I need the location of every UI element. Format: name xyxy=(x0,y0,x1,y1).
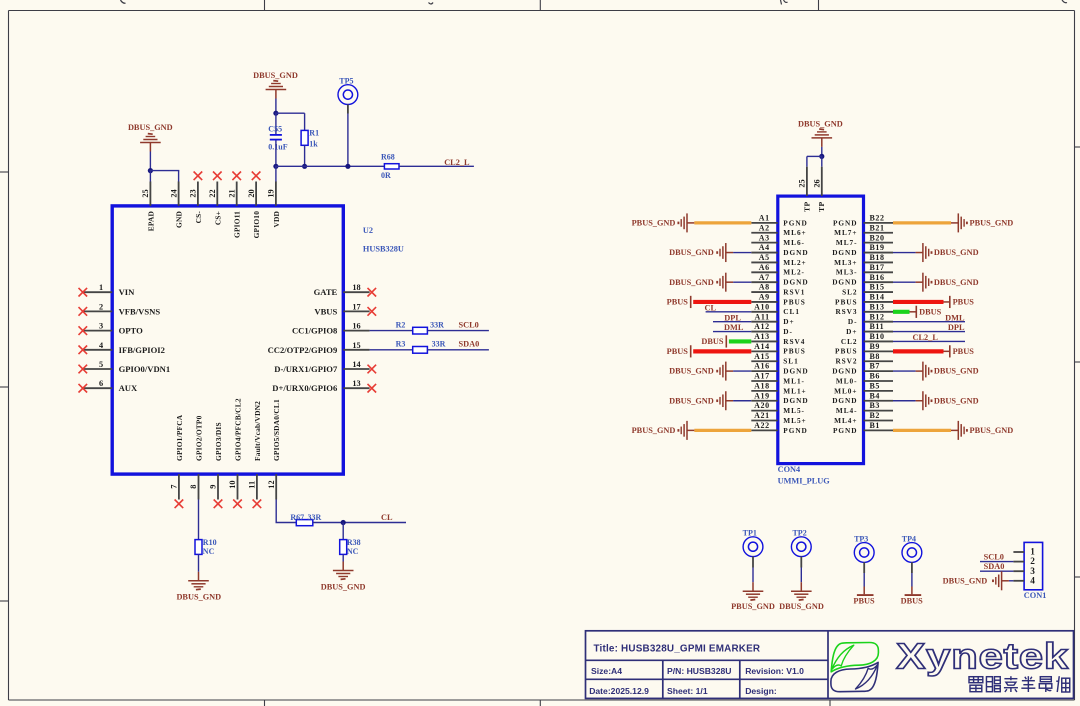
svg-text:PBUS: PBUS xyxy=(783,297,805,306)
svg-text:5: 5 xyxy=(99,360,103,369)
net label CL (A10) xyxy=(705,303,717,312)
wire DBUS_GND net B16 xyxy=(893,281,916,283)
net label DPL (B11) xyxy=(948,323,965,332)
svg-text:ML3+: ML3+ xyxy=(834,258,857,267)
wire DBUS net B13 xyxy=(893,310,916,314)
svg-text:DBUS_GND: DBUS_GND xyxy=(253,71,298,80)
net label SCL0 (CON1) xyxy=(984,553,1004,562)
test point TP5 xyxy=(338,76,358,113)
junction xyxy=(302,164,307,169)
pin A13 RSV4 xyxy=(751,332,805,346)
power symbol PBUS (A9) xyxy=(667,296,691,308)
svg-text:TP4: TP4 xyxy=(902,534,916,543)
svg-text:PBUS: PBUS xyxy=(853,597,875,606)
svg-text:AUX: AUX xyxy=(119,383,138,393)
junction xyxy=(273,164,278,169)
power symbol PBUS_GND (B22) xyxy=(951,213,1013,232)
svg-text:A3: A3 xyxy=(759,233,770,242)
wire DPL net B11 xyxy=(893,331,965,333)
pin 15 CC2/OTP2/GPIO9 xyxy=(268,341,370,355)
svg-text:ML0+: ML0+ xyxy=(834,386,857,395)
svg-text:R38: R38 xyxy=(347,538,361,547)
svg-text:ML2-: ML2- xyxy=(783,268,805,277)
pin 13 D+/URX0/GPIO6 xyxy=(272,379,376,393)
svg-text:A16: A16 xyxy=(754,362,770,371)
pin 12 GPIO5/SDA0/CL1 xyxy=(267,399,281,500)
svg-text:ML7-: ML7- xyxy=(836,238,858,247)
svg-text:20: 20 xyxy=(247,189,256,197)
svg-text:4: 4 xyxy=(99,341,103,350)
pin B13 RSV3 xyxy=(835,302,893,316)
svg-text:A5: A5 xyxy=(759,253,770,262)
svg-text:DML: DML xyxy=(945,313,965,322)
pin 23 CS- xyxy=(189,172,203,224)
wire xyxy=(427,330,489,332)
pin B5 ML0+ xyxy=(834,381,893,395)
connector CON1 body xyxy=(1024,542,1047,599)
svg-text:DGND: DGND xyxy=(832,396,857,405)
svg-text:RSV4: RSV4 xyxy=(783,337,805,346)
pin 11 Fault/Vcab/VDN2 xyxy=(248,401,262,508)
pin A17 ML1- xyxy=(751,372,805,386)
svg-text:RSV3: RSV3 xyxy=(835,307,857,316)
svg-text:VBUS: VBUS xyxy=(314,306,337,316)
svg-text:DBUS_GND: DBUS_GND xyxy=(669,278,714,287)
pin A20 ML5- xyxy=(751,401,805,415)
svg-text:TP5: TP5 xyxy=(339,76,353,85)
wire xyxy=(342,554,344,561)
svg-text:PBUS: PBUS xyxy=(953,298,975,307)
svg-text:24: 24 xyxy=(169,189,178,197)
wire xyxy=(863,573,865,587)
pin A7 DGND xyxy=(751,273,808,287)
svg-text:9: 9 xyxy=(209,485,218,489)
net label CL2_L (B10) xyxy=(913,333,939,342)
power symbol DBUS_GND (below R10) xyxy=(176,572,221,602)
pin A9 PBUS xyxy=(751,293,805,307)
resistor R68 0R xyxy=(381,153,399,180)
svg-text:12: 12 xyxy=(267,480,276,488)
svg-text:DBUS_GND: DBUS_GND xyxy=(779,602,824,611)
svg-text:1k: 1k xyxy=(309,139,318,148)
svg-text:D+: D+ xyxy=(846,327,857,336)
svg-text:RSV1: RSV1 xyxy=(783,287,805,296)
svg-text:HUSB328U: HUSB328U xyxy=(363,244,404,253)
wire DPL net A11 xyxy=(713,321,751,323)
svg-text:PBUS: PBUS xyxy=(835,347,857,356)
svg-text:B11: B11 xyxy=(870,322,885,331)
svg-text:A14: A14 xyxy=(754,342,770,351)
pin A12 D- xyxy=(751,322,793,336)
wire CL net A10 xyxy=(706,311,752,313)
pin B8 RSV2 xyxy=(835,352,893,366)
pin B6 ML0- xyxy=(836,372,893,386)
svg-text:33R: 33R xyxy=(430,320,444,329)
svg-text:UMMI_PLUG: UMMI_PLUG xyxy=(778,476,831,485)
svg-text:VDD: VDD xyxy=(272,211,281,228)
svg-text:A21: A21 xyxy=(754,411,770,420)
svg-text:Revision: V1.0: Revision: V1.0 xyxy=(745,666,804,676)
svg-text:A19: A19 xyxy=(754,391,770,400)
junction xyxy=(341,520,346,525)
power symbol DBUS_GND (B7) xyxy=(916,362,979,381)
pin 5 GPIO0/VDN1 xyxy=(79,360,171,374)
svg-text:4: 4 xyxy=(1030,576,1035,586)
svg-text:GPIO4/PFCB/CL2: GPIO4/PFCB/CL2 xyxy=(234,398,243,461)
pin A6 ML2- xyxy=(751,263,805,277)
pin B16 DGND xyxy=(832,273,893,287)
power symbol DBUS_GND (CON1) xyxy=(943,571,1009,590)
svg-text:PBUS_GND: PBUS_GND xyxy=(970,219,1014,228)
power symbol PBUS (TP3) xyxy=(853,587,875,606)
svg-text:14: 14 xyxy=(352,360,360,369)
svg-text:A6: A6 xyxy=(759,263,770,272)
wire PBUS net A9 xyxy=(693,300,751,304)
pin A2 ML6+ xyxy=(751,223,806,237)
svg-text:3: 3 xyxy=(1030,567,1035,577)
pin 26 TP xyxy=(813,167,827,212)
svg-text:ML0-: ML0- xyxy=(836,376,858,385)
svg-text:R67: R67 xyxy=(290,513,304,522)
svg-text:PGND: PGND xyxy=(833,218,857,227)
svg-text:A12: A12 xyxy=(754,322,770,331)
svg-text:SDA0: SDA0 xyxy=(984,562,1005,571)
svg-text:ML3-: ML3- xyxy=(836,268,858,277)
P/N field xyxy=(667,666,731,676)
svg-text:R10: R10 xyxy=(203,538,217,547)
power symbol DBUS_GND (B19) xyxy=(916,243,979,262)
net label SDA0 xyxy=(459,340,480,349)
svg-text:DBUS_GND: DBUS_GND xyxy=(798,119,843,128)
svg-text:10: 10 xyxy=(228,480,237,488)
pin 4 IFB/GPIOI2 xyxy=(79,341,165,355)
svg-text:PBUS: PBUS xyxy=(667,347,689,356)
resistor R1 1k xyxy=(301,129,319,149)
svg-text:16: 16 xyxy=(352,322,360,331)
pin B19 DGND xyxy=(832,243,893,257)
pin B14 PBUS xyxy=(835,293,893,307)
wire xyxy=(304,145,306,166)
svg-text:D-: D- xyxy=(848,317,858,326)
svg-text:15: 15 xyxy=(352,341,360,350)
power symbol DBUS_GND (above CON4) xyxy=(798,119,843,147)
svg-text:SCL0: SCL0 xyxy=(459,321,479,330)
svg-text:B10: B10 xyxy=(870,332,885,341)
svg-text:ML1+: ML1+ xyxy=(783,386,806,395)
svg-text:19: 19 xyxy=(267,189,276,197)
svg-text:A20: A20 xyxy=(754,401,770,410)
capacitor C55 0.1uF xyxy=(268,125,287,152)
svg-text:PBUS_GND: PBUS_GND xyxy=(632,426,676,435)
test point TP1 xyxy=(743,529,763,568)
sheet field xyxy=(667,686,708,696)
svg-text:DBUS_GND: DBUS_GND xyxy=(934,248,979,257)
svg-text:B7: B7 xyxy=(870,362,881,371)
design field xyxy=(745,686,777,696)
svg-text:B14: B14 xyxy=(870,293,885,302)
svg-text:21: 21 xyxy=(227,189,236,197)
pin 1 VIN xyxy=(79,283,136,297)
pin 6 AUX xyxy=(79,379,139,393)
svg-text:PGND: PGND xyxy=(783,218,807,227)
wire xyxy=(313,522,406,524)
svg-text:Title: HUSB328U_GPMI EMARKER: Title: HUSB328U_GPMI EMARKER xyxy=(594,644,761,655)
power symbol DBUS_GND (B16) xyxy=(916,273,979,292)
pin 25 EPAD xyxy=(141,182,155,232)
resistor R67 33R xyxy=(290,513,321,526)
pin 9 GPIO3/DIS xyxy=(209,422,223,508)
wire DBUS net A13 xyxy=(729,339,751,343)
pin B4 DGND xyxy=(832,391,893,405)
power symbol DBUS_GND (above EPAD/GND pins) xyxy=(128,123,173,151)
pin 1 xyxy=(1013,548,1035,558)
svg-text:VIN: VIN xyxy=(119,287,136,297)
wire SCL0 net xyxy=(980,561,1013,563)
wire xyxy=(342,523,344,540)
svg-text:17: 17 xyxy=(352,302,360,311)
wire xyxy=(198,554,200,571)
pin A21 ML5+ xyxy=(751,411,806,425)
svg-text:GPIO0/VDN1: GPIO0/VDN1 xyxy=(119,364,171,374)
svg-text:PGND: PGND xyxy=(833,426,857,435)
pin A4 DGND xyxy=(751,243,808,257)
svg-text:B22: B22 xyxy=(870,214,885,223)
svg-text:A13: A13 xyxy=(754,332,770,341)
svg-text:B8: B8 xyxy=(870,352,881,361)
svg-text:DBUS_GND: DBUS_GND xyxy=(128,123,173,132)
svg-text:R2: R2 xyxy=(396,320,406,329)
pin A8 RSV1 xyxy=(751,283,805,297)
power symbol DBUS_GND (A7) xyxy=(669,273,733,292)
svg-text:A8: A8 xyxy=(759,283,770,292)
power symbol PBUS_GND (A1) xyxy=(632,213,695,232)
net label SDA0 (CON1) xyxy=(984,562,1005,571)
svg-text:DBUS_GND: DBUS_GND xyxy=(669,367,714,376)
svg-text:B17: B17 xyxy=(870,263,885,272)
svg-text:DGND: DGND xyxy=(832,278,857,287)
pin 4 xyxy=(1013,576,1035,586)
svg-text:B1: B1 xyxy=(870,421,881,430)
svg-text:DML: DML xyxy=(724,323,744,332)
svg-text:CON4: CON4 xyxy=(778,465,801,474)
net label DML (B12) xyxy=(945,313,965,322)
wire xyxy=(275,113,304,135)
svg-text:PBUS: PBUS xyxy=(667,298,689,307)
pin 3 OPTO xyxy=(79,322,144,336)
svg-text:B9: B9 xyxy=(870,342,881,351)
svg-text:P/N: HUSB328U: P/N: HUSB328U xyxy=(667,666,731,676)
wire DBUS_GND net B19 xyxy=(893,252,916,254)
svg-text:CL2_L: CL2_L xyxy=(913,333,939,342)
pin B11 D+ xyxy=(846,322,893,336)
power symbol PBUS_GND (A22) xyxy=(632,421,695,440)
svg-text:PBUS: PBUS xyxy=(953,347,975,356)
svg-text:Date:2025.12.9: Date:2025.12.9 xyxy=(589,686,649,696)
svg-text:U2: U2 xyxy=(363,226,373,235)
svg-text:2: 2 xyxy=(99,302,103,311)
svg-text:R1: R1 xyxy=(309,129,319,138)
svg-text:PGND: PGND xyxy=(783,426,807,435)
svg-text:DPL: DPL xyxy=(948,323,965,332)
wire SDA0 net xyxy=(980,570,1013,572)
svg-text:Xynetek: Xynetek xyxy=(896,636,1069,676)
svg-text:26: 26 xyxy=(813,179,822,187)
pin A5 ML2+ xyxy=(751,253,806,267)
svg-text:CS+: CS+ xyxy=(213,211,222,225)
svg-text:TP: TP xyxy=(817,202,826,212)
svg-text:33R: 33R xyxy=(308,513,322,522)
svg-text:ML6+: ML6+ xyxy=(783,228,806,237)
svg-text:DPL: DPL xyxy=(724,313,741,322)
svg-text:SDA0: SDA0 xyxy=(459,340,480,349)
svg-text:B18: B18 xyxy=(870,253,885,262)
pin B3 ML4- xyxy=(836,401,893,415)
junction xyxy=(819,154,824,159)
power symbol PBUS (B14) xyxy=(950,296,974,308)
svg-text:GATE: GATE xyxy=(314,287,338,297)
pin B18 ML3+ xyxy=(834,253,893,267)
wire xyxy=(276,500,297,523)
pin B12 D- xyxy=(848,312,893,326)
wire xyxy=(752,568,754,583)
svg-text:PBUS: PBUS xyxy=(835,297,857,306)
svg-text:DGND: DGND xyxy=(832,248,857,257)
pin 20 GPIO10 xyxy=(247,172,261,239)
wire DBUS_GND net A4 xyxy=(733,252,751,254)
svg-text:13: 13 xyxy=(352,379,360,388)
svg-text:A10: A10 xyxy=(754,302,770,311)
svg-text:D+/URX0/GPIO6: D+/URX0/GPIO6 xyxy=(272,383,338,393)
connector CON4 UMMI_PLUG body xyxy=(778,196,864,485)
wire xyxy=(427,349,489,351)
power symbol DBUS (A13) xyxy=(701,335,726,347)
svg-text:Fault/Vcab/VDN2: Fault/Vcab/VDN2 xyxy=(253,401,262,461)
svg-text:CON1: CON1 xyxy=(1024,591,1047,600)
junction xyxy=(345,164,350,169)
svg-text:DBUS_GND: DBUS_GND xyxy=(943,577,988,586)
svg-text:Sheet: 1/1: Sheet: 1/1 xyxy=(667,686,708,696)
wire xyxy=(347,114,349,167)
pin 7 GPIO1/PFCA xyxy=(170,414,184,508)
wire xyxy=(275,140,277,166)
svg-text:TP: TP xyxy=(802,202,811,212)
svg-text:DBUS: DBUS xyxy=(901,597,924,606)
svg-text:A2: A2 xyxy=(759,223,770,232)
pin B2 ML4+ xyxy=(834,411,893,425)
svg-text:7: 7 xyxy=(170,485,179,489)
pin 24 GND xyxy=(169,182,183,228)
power symbol PBUS_GND (TP1) xyxy=(731,582,775,611)
svg-text:GND: GND xyxy=(175,211,184,228)
svg-text:GPIO10: GPIO10 xyxy=(252,211,261,239)
svg-text:CL1: CL1 xyxy=(783,307,800,316)
wire DBUS_GND net A16 xyxy=(733,370,751,372)
svg-text:PBUS_GND: PBUS_GND xyxy=(731,602,775,611)
power symbol DBUS_GND (A16) xyxy=(669,362,733,381)
svg-text:GPIO5/SDA0/CL1: GPIO5/SDA0/CL1 xyxy=(272,399,281,461)
pin 2 xyxy=(1013,557,1035,567)
svg-text:CS-: CS- xyxy=(194,211,203,224)
title text HUSB328U_GPMI EMARKER xyxy=(594,644,761,655)
power symbol DBUS_GND (below R38) xyxy=(321,562,366,592)
svg-text:B21: B21 xyxy=(870,223,885,232)
resistor R3 33R xyxy=(396,340,446,354)
wire PBUS_GND net B1 xyxy=(893,429,951,432)
pin 17 VBUS xyxy=(314,302,376,316)
svg-text:CL2_L: CL2_L xyxy=(444,158,470,167)
svg-text:DBUS: DBUS xyxy=(701,337,724,346)
svg-text:1: 1 xyxy=(99,283,103,292)
svg-text:DGND: DGND xyxy=(783,248,808,257)
svg-text:25: 25 xyxy=(141,189,150,197)
svg-text:DBUS_GND: DBUS_GND xyxy=(321,582,366,591)
net label CL2_L xyxy=(444,158,470,167)
svg-text:ML4-: ML4- xyxy=(836,406,858,415)
svg-text:R68: R68 xyxy=(381,153,395,162)
svg-text:DBUS_GND: DBUS_GND xyxy=(934,278,979,287)
svg-text:B13: B13 xyxy=(870,302,885,311)
pin A14 PBUS xyxy=(751,342,805,356)
svg-text:RSV2: RSV2 xyxy=(835,357,857,366)
pin 18 GATE xyxy=(314,283,377,297)
power symbol DBUS_GND (B4) xyxy=(916,391,979,410)
wire xyxy=(370,330,413,332)
svg-text:PBUS_GND: PBUS_GND xyxy=(632,219,676,228)
svg-text:ML4+: ML4+ xyxy=(834,416,857,425)
svg-text:B12: B12 xyxy=(870,312,885,321)
svg-text:SCL0: SCL0 xyxy=(984,553,1004,562)
power symbol DBUS (B13) xyxy=(916,306,941,318)
svg-text:B2: B2 xyxy=(870,411,881,420)
wire PBUS_GND net A22 xyxy=(694,429,751,432)
pin B10 CL2 xyxy=(841,332,893,346)
date field xyxy=(589,686,649,696)
svg-text:B15: B15 xyxy=(870,283,885,292)
resistor R2 33R xyxy=(396,320,445,334)
wire xyxy=(807,156,823,167)
logo chinese characters xyxy=(969,676,1070,692)
logo leaf green xyxy=(831,643,878,672)
power symbol DBUS_GND (above C55) xyxy=(253,71,298,99)
pin A1 PGND xyxy=(751,214,807,228)
svg-text:1: 1 xyxy=(1030,548,1035,558)
svg-text:ML1-: ML1- xyxy=(783,376,805,385)
svg-text:DBUS_GND: DBUS_GND xyxy=(934,396,979,405)
wire DBUS_GND net B7 xyxy=(893,370,916,372)
wire xyxy=(198,500,200,540)
svg-text:A15: A15 xyxy=(754,352,770,361)
wire xyxy=(800,568,802,583)
pin A10 CL1 xyxy=(751,302,800,316)
svg-text:ML5-: ML5- xyxy=(783,406,805,415)
size field xyxy=(591,666,622,676)
IC U2 HUSB328U body xyxy=(112,206,404,474)
pin A3 ML6- xyxy=(751,233,805,247)
junction xyxy=(148,168,153,173)
svg-text:22: 22 xyxy=(208,189,217,197)
pin B17 ML3- xyxy=(836,263,893,277)
pin 14 D-/URX1/GPIO7 xyxy=(274,360,376,374)
svg-text:TP3: TP3 xyxy=(854,534,868,543)
wire DBUS_GND net A7 xyxy=(733,281,751,283)
svg-text:CL: CL xyxy=(705,303,717,312)
revision field xyxy=(745,666,804,676)
svg-text:GPIO11: GPIO11 xyxy=(233,211,242,238)
svg-text:ML5+: ML5+ xyxy=(783,416,806,425)
svg-text:CC2/OTP2/GPIO9: CC2/OTP2/GPIO9 xyxy=(268,345,338,355)
wire DML net A12 xyxy=(713,331,751,333)
pin 19 VDD xyxy=(267,182,281,228)
